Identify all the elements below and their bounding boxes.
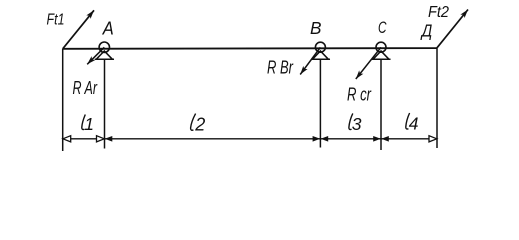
dim arrowhead l3 right bbox=[373, 136, 381, 142]
svg-text:4: 4 bbox=[409, 114, 419, 134]
beam bbox=[63, 47, 437, 50]
reaction arrow R_A bbox=[87, 47, 104, 64]
svg-text:A: A bbox=[102, 19, 114, 39]
svg-text:Ft2: Ft2 bbox=[428, 4, 449, 21]
svg-text:R cr: R cr bbox=[347, 84, 372, 105]
support C base line bbox=[372, 58, 391, 60]
extension line C bbox=[380, 59, 382, 150]
reaction arrow R_B bbox=[300, 47, 320, 74]
support B pin circle bbox=[315, 42, 325, 52]
dim arrowhead l2 right bbox=[313, 136, 321, 142]
support B triangle bbox=[312, 51, 328, 59]
dim arrowhead l2 left bbox=[105, 136, 113, 142]
dimension line l1 bbox=[63, 138, 105, 140]
label l4 bbox=[406, 113, 410, 129]
dim arrowhead l1 left bbox=[63, 136, 71, 142]
label l2 bbox=[191, 114, 196, 131]
extension line A bbox=[104, 59, 106, 148]
svg-text:Д: Д bbox=[420, 21, 432, 41]
force arrow Ft1 bbox=[63, 10, 94, 49]
svg-text:2: 2 bbox=[194, 115, 205, 135]
dimension line l4 bbox=[381, 138, 437, 140]
svg-text:1: 1 bbox=[84, 114, 94, 134]
svg-text:R Br: R Br bbox=[267, 57, 294, 78]
support C triangle bbox=[373, 51, 389, 59]
svg-text:B: B bbox=[310, 18, 322, 38]
label l3 bbox=[349, 113, 353, 129]
dim arrowhead l1 right bbox=[97, 136, 105, 142]
dimension line l3 bbox=[320, 138, 381, 140]
dim arrowhead l4 left bbox=[381, 136, 389, 142]
support A pin circle bbox=[99, 42, 109, 52]
reaction arrow R_C bbox=[356, 47, 381, 79]
support A base line bbox=[95, 58, 114, 60]
svg-text:R Ar: R Ar bbox=[73, 77, 98, 98]
force arrow Ft2 bbox=[437, 10, 468, 48]
support C pin circle bbox=[376, 42, 386, 52]
extension line left end bbox=[62, 49, 64, 151]
dim arrowhead l4 right bbox=[429, 136, 437, 142]
svg-text:C: C bbox=[378, 18, 387, 37]
svg-text:Ft1: Ft1 bbox=[47, 11, 65, 28]
svg-text:3: 3 bbox=[352, 114, 362, 134]
support A triangle bbox=[96, 51, 112, 59]
label l1 bbox=[82, 115, 86, 130]
extension line right end bbox=[436, 48, 438, 148]
dim arrowhead l3 left bbox=[321, 136, 329, 142]
support B base line bbox=[311, 58, 330, 60]
dimension line l2 bbox=[105, 138, 321, 140]
extension line B bbox=[319, 59, 321, 147]
